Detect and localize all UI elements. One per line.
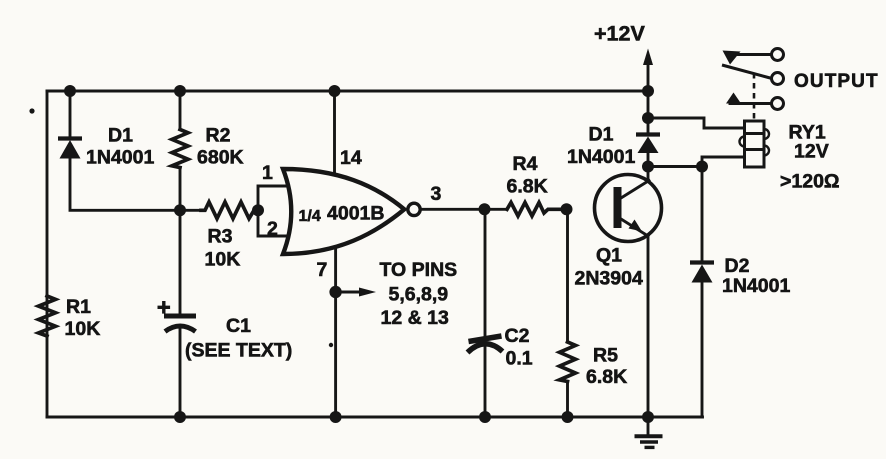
svg-text:2N3904: 2N3904 — [575, 268, 643, 290]
wire collector to D2 node — [648, 165, 702, 168]
diode D2 — [690, 167, 714, 418]
svg-text:680K: 680K — [197, 147, 244, 169]
node emitter bottom — [642, 411, 654, 423]
node D2 top — [696, 161, 708, 173]
svg-text:R3: R3 — [208, 226, 233, 248]
speck — [329, 343, 333, 347]
ground — [635, 417, 663, 447]
wire D1 top lead — [69, 91, 72, 138]
resistor R2 — [172, 130, 188, 168]
svg-text:10K: 10K — [205, 249, 241, 271]
node relay feed — [642, 112, 654, 124]
svg-text:C1: C1 — [226, 315, 251, 337]
svg-text:6.8K: 6.8K — [507, 176, 548, 198]
wire pin 14 lead — [333, 91, 336, 176]
resistor R3 — [201, 202, 258, 219]
svg-text:(SEE TEXT): (SEE TEXT) — [185, 340, 292, 362]
transistor Q1 — [595, 175, 662, 242]
svg-text:3: 3 — [431, 183, 442, 205]
svg-text:D1: D1 — [589, 124, 614, 146]
resistor R4 — [507, 203, 567, 217]
svg-text:1N4001: 1N4001 — [567, 146, 635, 168]
resistor R5 — [560, 209, 576, 417]
svg-text:R4: R4 — [513, 153, 538, 175]
svg-text:7: 7 — [317, 259, 328, 281]
svg-text:0.1: 0.1 — [506, 348, 533, 370]
svg-text:14: 14 — [340, 147, 362, 169]
node R3 left — [174, 204, 186, 216]
capacitor C1 — [158, 210, 197, 417]
svg-text:TO PINS: TO PINS — [380, 259, 458, 281]
node C1 bottom — [174, 411, 186, 423]
wire relay lower feed — [702, 157, 745, 167]
svg-text:D2: D2 — [725, 255, 750, 277]
svg-text:D1: D1 — [108, 125, 133, 147]
wire bottom rail — [47, 416, 703, 419]
op-amp U1 NOR gate 1/4 4001B — [283, 169, 420, 254]
svg-text:4001B: 4001B — [327, 203, 384, 225]
node gate input — [252, 204, 264, 216]
svg-text:12 & 13: 12 & 13 — [381, 307, 449, 329]
svg-text:10K: 10K — [65, 318, 101, 340]
svg-text:1N4001: 1N4001 — [722, 275, 790, 297]
node pin 7 arrow junction — [329, 286, 341, 298]
node pin 7 bottom — [330, 411, 342, 423]
speck — [29, 108, 34, 113]
svg-text:1N4001: 1N4001 — [86, 147, 154, 169]
svg-text:6.8K: 6.8K — [586, 366, 627, 388]
wire relay actuator dashed — [753, 73, 756, 121]
svg-text:1: 1 — [262, 162, 273, 184]
wire gate output — [421, 208, 508, 211]
svg-text:C2: C2 — [505, 325, 530, 347]
relay switch contacts — [722, 49, 784, 110]
diode D1 — [58, 139, 82, 159]
node collector — [642, 161, 654, 173]
node D1 top — [64, 85, 76, 97]
wire D1 bottom lead — [70, 158, 201, 210]
node R5 bottom — [562, 411, 574, 423]
node pin 14 rail — [329, 85, 341, 97]
node C2 bottom — [479, 411, 491, 423]
node R4 right / base — [561, 203, 573, 215]
node output — [479, 203, 491, 215]
svg-text:OUTPUT: OUTPUT — [794, 71, 879, 92]
wire R2 bottom lead — [179, 168, 182, 211]
svg-text:Q1: Q1 — [596, 245, 622, 267]
wire R2 top lead — [179, 91, 182, 130]
node +12V top rail — [642, 85, 654, 97]
diode D1 collector clamp — [636, 135, 660, 167]
svg-text:>120Ω: >120Ω — [780, 171, 840, 193]
wire left vertical — [46, 91, 49, 417]
svg-text:5,6,8,9: 5,6,8,9 — [389, 284, 449, 306]
svg-text:1/4: 1/4 — [299, 208, 321, 225]
wire collector lead — [647, 167, 650, 182]
wire input bracket — [258, 186, 291, 236]
wire relay upper feed — [648, 118, 745, 128]
svg-text:R1: R1 — [66, 296, 91, 318]
svg-text:R2: R2 — [206, 125, 231, 147]
power +12V arrow — [643, 49, 653, 135]
capacitor C2 — [468, 209, 503, 417]
svg-text:2: 2 — [267, 218, 278, 240]
node R2 top — [174, 85, 186, 97]
svg-text:+12V: +12V — [594, 22, 645, 46]
svg-text:12V: 12V — [794, 141, 829, 163]
relay RY1 coil — [740, 121, 770, 167]
wire top rail — [47, 90, 648, 93]
wire emitter lead — [647, 236, 650, 417]
wire to-pins arrow — [336, 288, 376, 297]
svg-text:R5: R5 — [593, 345, 618, 367]
value gate 1/4 4001B — [299, 203, 385, 226]
resistor R1 — [39, 296, 56, 336]
wire pin 7 lead — [334, 246, 337, 417]
